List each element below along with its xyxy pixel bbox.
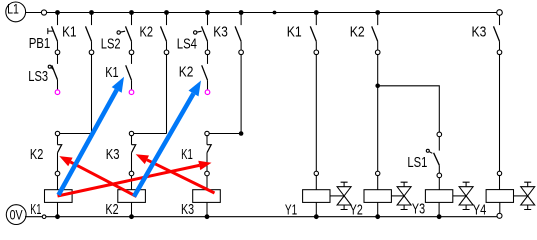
wire rung1 horizontal (60, 133, 92, 135)
wire rung2 horizontal (134, 133, 167, 135)
svg-text:LS1: LS1 (407, 154, 427, 171)
junction dot branch (375, 84, 380, 89)
wire bottom rail (25, 216, 500, 218)
junction dots top rail (55, 10, 380, 15)
junction dots bottom rail (55, 214, 441, 219)
arrow red C (coil K3 to contact K3 NC) (136, 154, 215, 193)
svg-text:K1: K1 (287, 24, 302, 41)
contact K1 (row2) (126, 55, 134, 95)
wire K1 column down (91, 55, 93, 134)
svg-text:K1: K1 (30, 201, 41, 218)
contact K3 (row1) (235, 15, 243, 55)
terminal pin bottom rail right end (497, 213, 502, 218)
limit switch LS4 (194, 15, 210, 55)
coil Y3 (425, 190, 452, 217)
terminal pin top rail right end (497, 10, 503, 16)
svg-text:K3: K3 (213, 24, 228, 41)
svg-text:Y1: Y1 (285, 201, 297, 218)
wire rung3 horizontal (209, 133, 241, 135)
coil Y4 (486, 190, 513, 214)
svg-text:K2: K2 (105, 201, 118, 218)
contact K1 (right block) (310, 15, 318, 190)
arrow blue 2 (coil K2 to contact K2 row2) (134, 81, 201, 197)
wire top rail (26, 12, 500, 14)
wire K2 column down (166, 55, 168, 134)
node rung1 feed pin (55, 131, 59, 135)
valve Y3 (453, 182, 473, 209)
pushbutton PB1 (48, 15, 60, 55)
contact K3 NC (rung2) (129, 136, 136, 190)
node LS1 top pin (437, 132, 442, 137)
contact K2 NC (rung1) (55, 136, 62, 190)
limit switch LS2 (117, 15, 134, 55)
contact K1 NC (rung3) (205, 136, 212, 190)
valve Y4 (514, 182, 535, 209)
svg-text:K1: K1 (105, 64, 118, 81)
svg-text:K3: K3 (472, 24, 487, 41)
svg-text:K2: K2 (140, 24, 154, 41)
svg-text:K2: K2 (179, 64, 194, 81)
svg-text:PB1: PB1 (29, 35, 51, 52)
contact K2 (right block) (372, 15, 380, 190)
svg-text:K1: K1 (62, 23, 76, 40)
svg-text:K2: K2 (30, 146, 43, 163)
wire branch to LS1 (378, 86, 440, 132)
node 0V (6, 205, 26, 225)
svg-text:LS2: LS2 (101, 35, 121, 52)
svg-text:Y2: Y2 (350, 201, 363, 218)
terminal pin on bottom rail (42, 215, 46, 219)
svg-text:LS4: LS4 (177, 35, 197, 52)
svg-text:K3: K3 (181, 201, 194, 218)
limit switch LS1 (426, 137, 441, 190)
arrow red B (coil K2 to contact K2 NC) (59, 156, 136, 196)
contact K3 (right block) (494, 15, 502, 189)
svg-text:Y4: Y4 (473, 201, 487, 218)
limit switch LS3 (48, 55, 60, 95)
svg-text:L1: L1 (7, 0, 19, 16)
valve Y1 (330, 182, 351, 209)
junction dot rung3 corner (239, 131, 244, 136)
svg-text:Y3: Y3 (412, 201, 425, 218)
contact K2 (row2) (202, 55, 210, 95)
node rung3 feed pin (205, 131, 209, 135)
svg-text:0V: 0V (10, 206, 24, 222)
terminal pin on top rail (41, 10, 46, 15)
coil K1 (45, 190, 73, 217)
coil Y1 (303, 190, 330, 217)
wire K3 column down (240, 55, 242, 134)
node rung2 feed pin (129, 131, 133, 135)
svg-text:K1: K1 (181, 146, 193, 163)
coil K2 (118, 190, 146, 217)
coil Y2 (364, 190, 391, 217)
node L1 (6, 2, 26, 22)
contact K2 (row1) (161, 15, 169, 55)
coil K3 (193, 190, 221, 217)
contact K1 (seal-in) (86, 15, 94, 55)
arrow red A (coil K1 to contact K1 NC) (58, 161, 212, 196)
arrow blue 1 (coil K1 to contact K1 row2) (59, 77, 125, 195)
valve Y2 (391, 182, 411, 209)
svg-text:K2: K2 (350, 24, 365, 41)
svg-text:K3: K3 (106, 146, 120, 163)
svg-text:LS3: LS3 (28, 68, 48, 85)
